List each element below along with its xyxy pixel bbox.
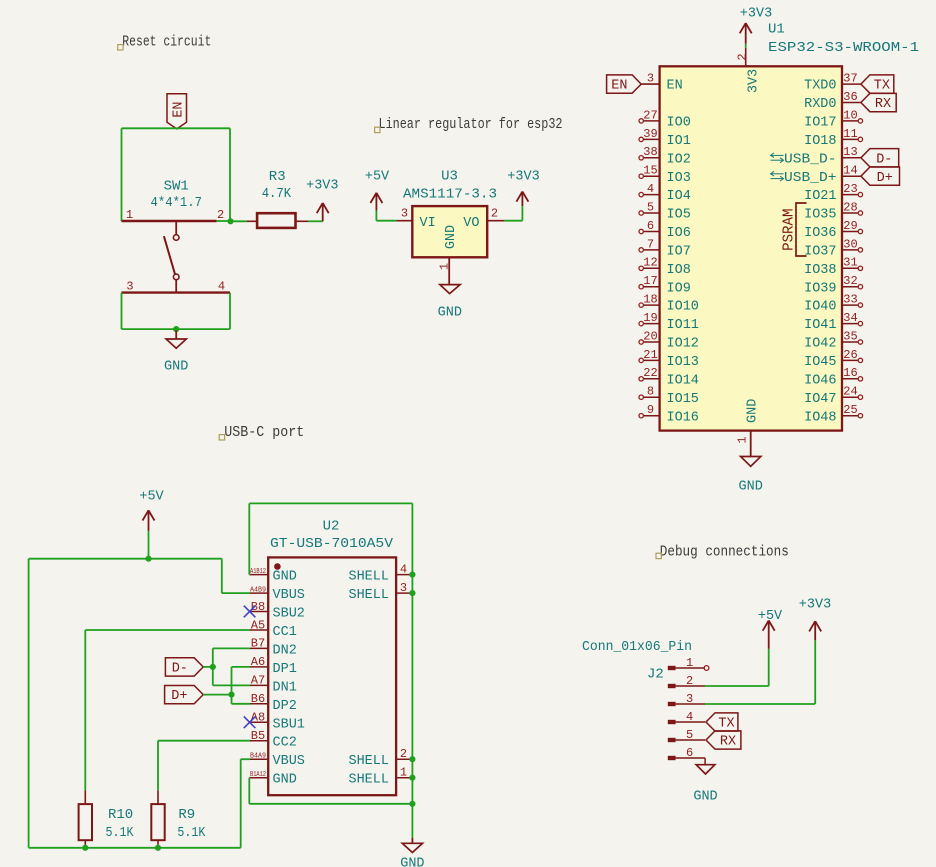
svg-text:SHELL: SHELL — [348, 773, 389, 788]
svg-text:23: 23 — [843, 182, 857, 196]
svg-text:3: 3 — [401, 207, 408, 221]
svg-text:38: 38 — [643, 145, 657, 159]
svg-text:TXD0: TXD0 — [804, 79, 836, 94]
svg-text:GND: GND — [438, 305, 462, 320]
svg-text:GND: GND — [444, 225, 459, 249]
svg-text:IO36: IO36 — [804, 226, 836, 241]
svg-text:IO6: IO6 — [667, 226, 691, 241]
svg-text:+5V: +5V — [365, 169, 390, 184]
svg-text:IO47: IO47 — [804, 392, 836, 407]
svg-text:20: 20 — [643, 329, 657, 343]
svg-text:A7: A7 — [251, 674, 265, 688]
svg-text:19: 19 — [643, 311, 657, 325]
svg-text:IO1: IO1 — [667, 134, 691, 149]
svg-text:3: 3 — [126, 280, 133, 294]
svg-text:2: 2 — [217, 208, 224, 222]
svg-text:4: 4 — [647, 182, 654, 196]
svg-text:5.1K: 5.1K — [106, 825, 134, 841]
svg-text:6: 6 — [647, 219, 654, 233]
svg-text:IO35: IO35 — [804, 208, 836, 223]
svg-text:A8: A8 — [251, 711, 265, 725]
svg-text:IO0: IO0 — [667, 116, 691, 131]
svg-text:DN1: DN1 — [273, 680, 297, 695]
svg-text:1: 1 — [400, 766, 407, 780]
svg-text:IO2: IO2 — [667, 152, 691, 167]
svg-text:25: 25 — [843, 403, 857, 417]
svg-text:Linear regulator for esp32: Linear regulator for esp32 — [379, 116, 563, 133]
svg-text:A6: A6 — [251, 655, 265, 669]
svg-text:IO18: IO18 — [804, 134, 836, 149]
svg-text:14: 14 — [843, 164, 857, 178]
svg-text:D-: D- — [876, 152, 892, 167]
svg-text:Conn_01x06_Pin: Conn_01x06_Pin — [582, 639, 692, 655]
svg-text:SHELL: SHELL — [348, 570, 389, 585]
svg-text:GND: GND — [273, 570, 297, 585]
svg-text:SHELL: SHELL — [348, 754, 389, 769]
svg-text:33: 33 — [843, 293, 857, 307]
svg-text:B7: B7 — [251, 637, 265, 651]
svg-text:TX: TX — [718, 717, 734, 732]
svg-text:DP2: DP2 — [273, 699, 297, 714]
svg-text:D-: D- — [172, 662, 188, 677]
svg-text:D+: D+ — [877, 171, 893, 186]
svg-text:39: 39 — [643, 127, 657, 141]
svg-text:16: 16 — [843, 366, 857, 380]
svg-text:A5: A5 — [251, 618, 265, 632]
svg-text:SHELL: SHELL — [348, 588, 389, 603]
svg-text:28: 28 — [843, 200, 857, 214]
svg-text:A1B12: A1B12 — [250, 568, 266, 576]
svg-text:U1: U1 — [768, 22, 785, 38]
svg-text:1: 1 — [686, 656, 693, 670]
svg-text:IO3: IO3 — [667, 171, 691, 186]
svg-text:IO12: IO12 — [667, 337, 699, 352]
svg-text:13: 13 — [843, 145, 857, 159]
svg-text:IO38: IO38 — [804, 263, 836, 278]
svg-text:U3: U3 — [441, 169, 458, 185]
svg-text:3: 3 — [647, 72, 654, 86]
svg-text:4*4*1.7: 4*4*1.7 — [151, 195, 203, 211]
svg-text:ESP32-S3-WROOM-1: ESP32-S3-WROOM-1 — [768, 40, 919, 56]
svg-text:VO: VO — [463, 216, 479, 231]
svg-text:6: 6 — [686, 746, 693, 760]
svg-text:GND: GND — [693, 790, 717, 805]
svg-text:4: 4 — [218, 280, 225, 294]
svg-text:35: 35 — [843, 329, 857, 343]
svg-text:+3V3: +3V3 — [306, 178, 338, 193]
svg-text:R10: R10 — [108, 807, 133, 823]
svg-text:RXD0: RXD0 — [804, 97, 836, 112]
svg-text:TX: TX — [874, 79, 890, 94]
svg-text:RX: RX — [875, 97, 891, 112]
svg-text:IO48: IO48 — [804, 410, 836, 425]
svg-text:5.1K: 5.1K — [177, 825, 205, 841]
svg-text:2: 2 — [400, 747, 407, 761]
svg-text:21: 21 — [643, 348, 657, 362]
svg-text:VBUS: VBUS — [273, 754, 305, 769]
svg-text:IO37: IO37 — [804, 245, 836, 260]
svg-text:B8: B8 — [251, 600, 265, 614]
svg-text:37: 37 — [843, 72, 857, 86]
svg-text:R3: R3 — [269, 169, 286, 185]
svg-text:IO11: IO11 — [667, 318, 699, 333]
svg-text:2: 2 — [686, 674, 693, 688]
svg-text:1: 1 — [437, 263, 451, 270]
svg-text:A4B9: A4B9 — [250, 586, 266, 594]
svg-text:+3V3: +3V3 — [507, 170, 539, 185]
svg-text:IO39: IO39 — [804, 281, 836, 296]
svg-text:IO45: IO45 — [804, 355, 836, 370]
svg-text:IO8: IO8 — [667, 263, 691, 278]
svg-text:31: 31 — [843, 256, 857, 270]
svg-text:USB_D-: USB_D- — [784, 152, 837, 167]
svg-text:CC2: CC2 — [273, 736, 297, 751]
svg-text:4: 4 — [400, 562, 407, 576]
svg-text:32: 32 — [843, 274, 857, 288]
svg-text:DN2: DN2 — [273, 643, 297, 658]
svg-text:5: 5 — [686, 728, 693, 742]
svg-text:IO41: IO41 — [804, 318, 836, 333]
svg-text:17: 17 — [643, 274, 657, 288]
svg-text:26: 26 — [843, 348, 857, 362]
svg-text:11: 11 — [843, 127, 857, 141]
svg-text:GND: GND — [400, 857, 424, 867]
svg-text:5: 5 — [647, 200, 654, 214]
svg-text:IO17: IO17 — [804, 116, 836, 131]
svg-text:IO15: IO15 — [667, 392, 699, 407]
svg-text:IO5: IO5 — [667, 208, 691, 223]
svg-text:IO10: IO10 — [667, 300, 699, 315]
svg-text:D+: D+ — [171, 689, 187, 704]
svg-text:3V3: 3V3 — [747, 69, 762, 93]
svg-text:8: 8 — [647, 385, 654, 399]
svg-text:15: 15 — [643, 164, 657, 178]
svg-text:AMS1117-3.3: AMS1117-3.3 — [403, 187, 497, 203]
svg-text:SBU2: SBU2 — [273, 607, 305, 622]
svg-text:34: 34 — [843, 311, 857, 325]
svg-text:DP1: DP1 — [273, 662, 297, 677]
svg-text:3: 3 — [686, 692, 693, 706]
svg-text:+3V3: +3V3 — [740, 6, 772, 21]
svg-text:IO21: IO21 — [804, 189, 836, 204]
svg-text:4: 4 — [686, 710, 693, 724]
svg-text:22: 22 — [643, 366, 657, 380]
svg-text:27: 27 — [643, 108, 657, 122]
svg-text:SW1: SW1 — [164, 179, 189, 195]
svg-text:+3V3: +3V3 — [799, 598, 831, 613]
svg-text:PSRAM: PSRAM — [781, 208, 798, 250]
svg-text:10: 10 — [843, 108, 857, 122]
svg-text:IO7: IO7 — [667, 245, 691, 260]
svg-text:CC1: CC1 — [273, 625, 297, 640]
svg-text:IO14: IO14 — [667, 373, 699, 388]
svg-text:IO42: IO42 — [804, 337, 836, 352]
svg-text:GND: GND — [273, 773, 297, 788]
svg-text:RX: RX — [720, 735, 736, 750]
svg-text:B1A12: B1A12 — [250, 771, 266, 779]
svg-text:J2: J2 — [647, 667, 664, 683]
svg-text:12: 12 — [643, 256, 657, 270]
svg-text:Reset circuit: Reset circuit — [122, 34, 211, 51]
svg-text:USB-C port: USB-C port — [224, 424, 304, 441]
svg-text:+5V: +5V — [758, 609, 783, 624]
svg-text:GT-USB-7010A5V: GT-USB-7010A5V — [270, 536, 394, 552]
svg-text:B6: B6 — [251, 692, 265, 706]
svg-text:B5: B5 — [251, 729, 265, 743]
svg-text:IO9: IO9 — [667, 281, 691, 296]
svg-text:24: 24 — [843, 385, 857, 399]
svg-text:IO4: IO4 — [667, 189, 691, 204]
svg-text:1: 1 — [735, 436, 749, 443]
svg-text:1: 1 — [126, 208, 133, 222]
svg-text:18: 18 — [643, 293, 657, 307]
svg-text:EN: EN — [611, 79, 627, 94]
svg-text:GND: GND — [164, 360, 188, 375]
svg-text:EN: EN — [172, 101, 187, 117]
svg-text:IO46: IO46 — [804, 373, 836, 388]
svg-text:7: 7 — [647, 237, 654, 251]
svg-text:SBU1: SBU1 — [273, 717, 305, 732]
svg-text:IO16: IO16 — [667, 410, 699, 425]
svg-text:+5V: +5V — [139, 490, 164, 505]
svg-text:GND: GND — [739, 480, 763, 495]
svg-text:3: 3 — [400, 581, 407, 595]
svg-text:U2: U2 — [323, 519, 340, 535]
svg-text:EN: EN — [667, 79, 683, 94]
svg-text:36: 36 — [843, 90, 857, 104]
svg-text:R9: R9 — [178, 807, 195, 823]
svg-text:2: 2 — [735, 53, 749, 60]
svg-text:VI: VI — [420, 216, 436, 231]
svg-text:9: 9 — [647, 403, 654, 417]
svg-text:29: 29 — [843, 219, 857, 233]
svg-text:IO13: IO13 — [667, 355, 699, 370]
svg-text:VBUS: VBUS — [273, 588, 305, 603]
svg-text:Debug connections: Debug connections — [660, 543, 789, 560]
svg-text:GND: GND — [746, 399, 761, 423]
svg-text:4.7K: 4.7K — [262, 186, 292, 202]
svg-text:2: 2 — [491, 207, 498, 221]
svg-text:USB_D+: USB_D+ — [784, 171, 837, 186]
svg-text:IO40: IO40 — [804, 300, 836, 315]
svg-text:30: 30 — [843, 237, 857, 251]
svg-text:B4A9: B4A9 — [250, 753, 266, 761]
